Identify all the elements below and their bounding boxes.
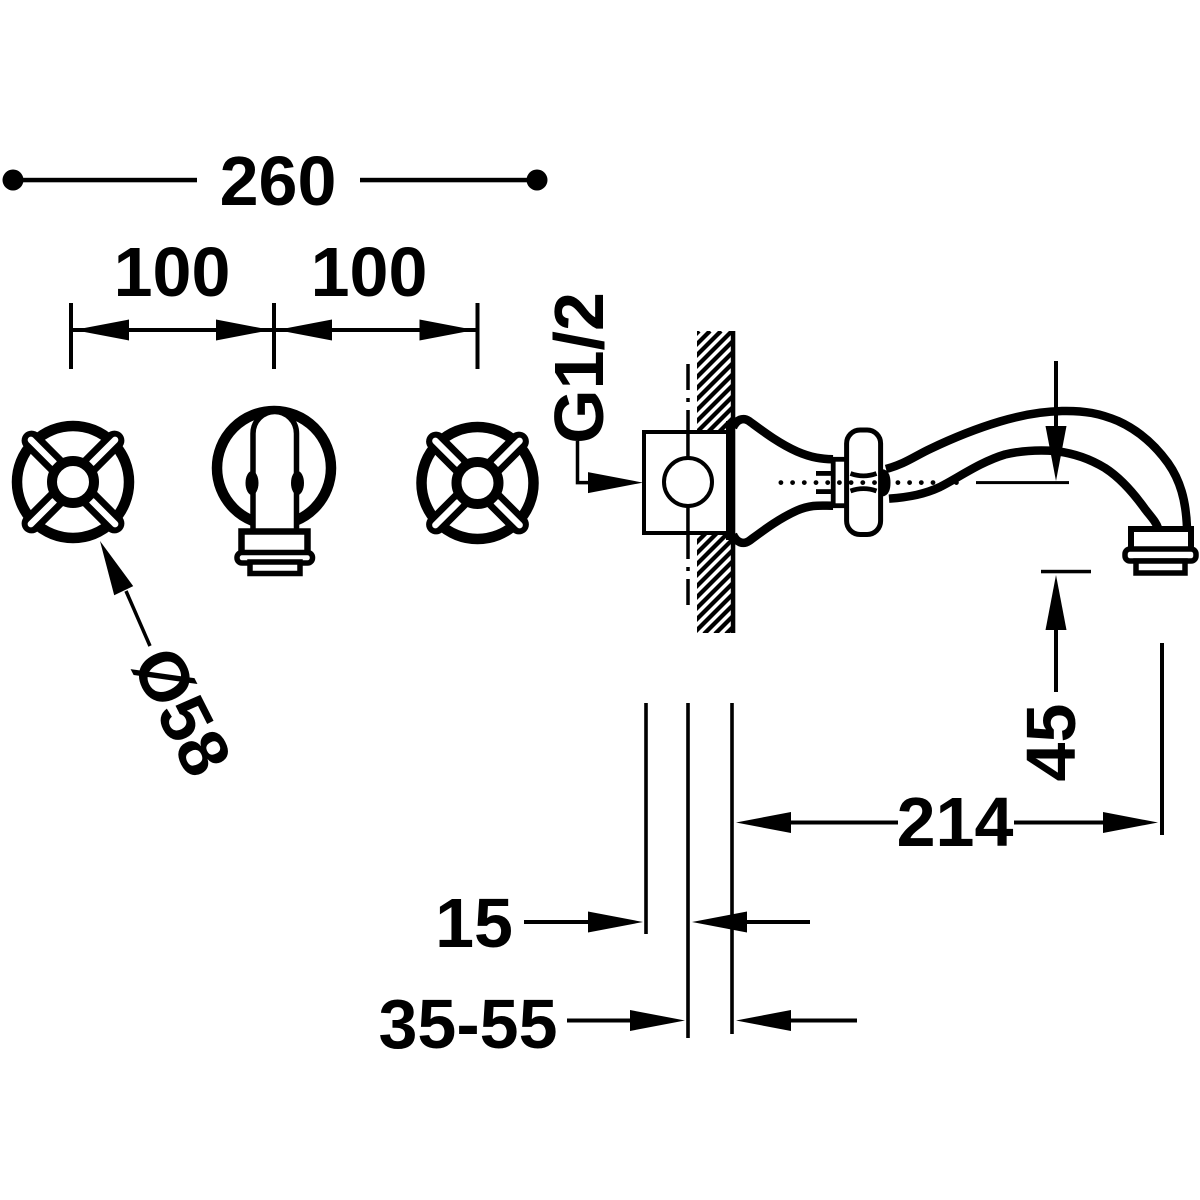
dimension 35-55: left arrowhead from right xyxy=(736,1010,791,1031)
dimension 214: right line xyxy=(1014,821,1105,825)
dimension 15: left line xyxy=(524,920,590,924)
front view spout: flange xyxy=(237,553,313,564)
svg-text:45: 45 xyxy=(1012,704,1090,782)
reference line: center plane xyxy=(686,703,690,1038)
dimension 100/100: right extension tick xyxy=(476,303,480,369)
reference line: escutcheon face xyxy=(644,703,648,934)
dimension 100 right: right arrowhead xyxy=(420,320,475,341)
svg-text:214: 214 xyxy=(897,783,1014,861)
svg-text:100: 100 xyxy=(311,233,428,311)
dimension 260: right end dot xyxy=(527,170,548,191)
dimension 100/100: left extension tick xyxy=(69,303,73,369)
side view: inlet circle G1/2 xyxy=(664,458,712,506)
side view: vertical centerline (dash-dot) xyxy=(686,364,690,609)
dimension 260: left line xyxy=(20,178,197,183)
front view spout: left side nub xyxy=(246,471,259,495)
reference line: wall face xyxy=(730,703,734,1034)
svg-text:15: 15 xyxy=(435,884,513,962)
side view: spindle lines before collar xyxy=(816,471,834,476)
front view: right cross handle xyxy=(422,427,534,539)
label D58: leader line xyxy=(126,591,150,646)
side view: spout bottom edge xyxy=(889,451,1158,528)
dimension 214: left line xyxy=(789,821,898,825)
side view: spout aerator tip xyxy=(1136,561,1185,573)
label G1/2: arrowhead xyxy=(588,472,643,493)
side view: wall mounting plate xyxy=(726,421,735,540)
front view spout: escutcheon circle xyxy=(217,411,331,525)
dimension 214: right arrowhead xyxy=(1103,812,1158,833)
side view: escutcheon inner vertical line xyxy=(686,434,690,459)
front view spout: aerator tip xyxy=(250,562,300,574)
side view: bonnet collar xyxy=(833,459,849,505)
front view spout: collar xyxy=(242,532,308,554)
dimension 100/100: middle extension tick xyxy=(272,303,276,369)
dimension 15: right line xyxy=(745,920,810,924)
front view spout: right side nub xyxy=(291,471,304,495)
side view: spout collar xyxy=(1131,529,1191,550)
svg-text:35-55: 35-55 xyxy=(378,985,557,1063)
side view: bell body top edge xyxy=(733,419,833,459)
dimension 45: centerline tick xyxy=(976,481,1069,484)
dimension 214: left arrowhead xyxy=(736,812,791,833)
dimension 214: right terminator line xyxy=(1160,643,1164,835)
svg-text:G1/2: G1/2 xyxy=(540,292,618,444)
dimension 35-55: left line xyxy=(567,1019,632,1023)
dimension 35-55: right line xyxy=(789,1019,857,1023)
side view: bell body bottom edge xyxy=(733,506,833,543)
side view: spout top edge xyxy=(886,411,1187,528)
label G1/2: leader line xyxy=(578,441,601,483)
dimension 100 right: left arrowhead xyxy=(277,320,332,341)
side view: escutcheon square xyxy=(644,432,728,533)
dimension 45: outlet tick xyxy=(1041,570,1091,574)
front view: left cross handle xyxy=(17,426,129,538)
front view spout: vertical body column xyxy=(253,412,297,533)
dimension 35-55: right arrowhead into gap xyxy=(630,1010,685,1031)
dimension 45: lower extension line xyxy=(1054,628,1058,692)
dimension 15: left arrowhead from right xyxy=(692,912,747,933)
dimension 45: up arrowhead xyxy=(1046,575,1067,630)
dimension 100 left: right arrowhead xyxy=(216,320,271,341)
dimension 260: left end dot xyxy=(3,170,24,191)
svg-text:100: 100 xyxy=(114,233,231,311)
dimension 15: right arrowhead into gap xyxy=(588,912,643,933)
dimension 100/100: dimension line xyxy=(71,328,478,332)
dimension 45: down arrowhead xyxy=(1046,426,1067,481)
label D58: arrowhead xyxy=(100,541,133,595)
side view: wall surface line xyxy=(731,331,736,633)
dimension 100 left: left arrowhead xyxy=(74,320,129,341)
dimension 45: upper extension line xyxy=(1054,361,1058,430)
side view: horizontal centerline dots xyxy=(779,480,959,485)
side view: valve body xyxy=(876,469,891,496)
svg-text:260: 260 xyxy=(220,142,337,220)
side view: cross handle (side) xyxy=(847,430,881,535)
dimension 260: right line xyxy=(360,178,533,183)
side view: spindle lines through handle xyxy=(851,474,877,476)
side view: spout flange xyxy=(1125,549,1196,561)
